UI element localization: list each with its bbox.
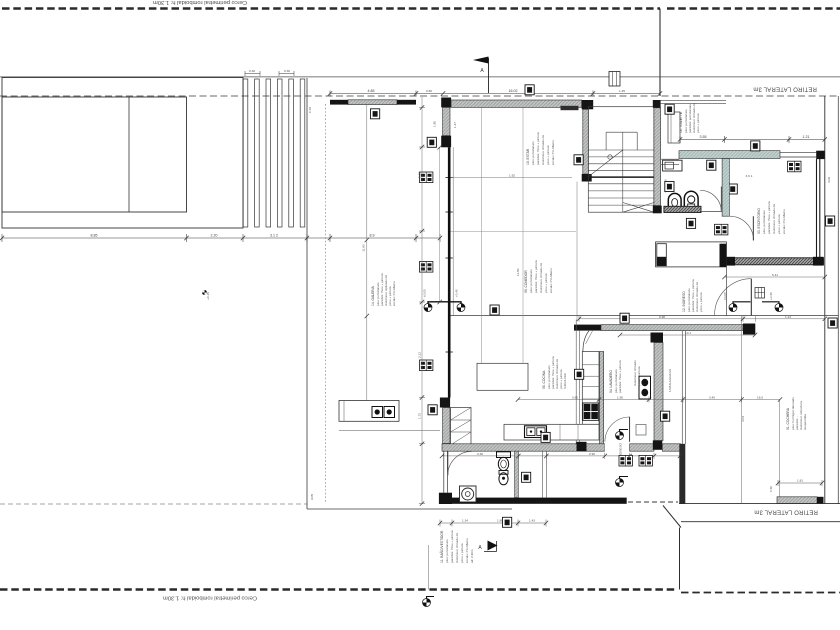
stair shaft outline <box>588 107 654 213</box>
bath door <box>447 451 449 475</box>
galeria top wall left black segment <box>330 100 348 105</box>
escritorio door arc <box>730 216 754 240</box>
galeria top wall hatched beam <box>348 100 397 105</box>
dimension over galeria wall <box>330 93 416 95</box>
svg-text:8.85: 8.85 <box>91 234 98 238</box>
escritorio room text <box>757 201 786 234</box>
fence level marker <box>428 545 430 590</box>
svg-text:10. ESTAR: 10. ESTAR <box>526 148 530 165</box>
svg-text:zocalo: Pro Marco: zocalo: Pro Marco <box>782 209 786 234</box>
svg-text:paredes: Yeso + pintura: paredes: Yeso + pintura <box>534 260 538 293</box>
swimming pool rectangle <box>2 97 187 212</box>
svg-text:0.76: 0.76 <box>308 107 312 113</box>
north wall end column <box>816 151 824 159</box>
pasillo door opening <box>605 443 630 452</box>
sidewalk line y76 <box>0 76 840 78</box>
estar ceiling break line <box>451 230 577 232</box>
svg-text:+0.40: +0.40 <box>455 289 459 297</box>
south dark wall <box>440 498 627 504</box>
lot boundary vertical at x660 <box>659 9 661 97</box>
svg-text:0.30: 0.30 <box>769 486 773 492</box>
kitchen E boxes <box>575 369 584 379</box>
E box right edge <box>828 318 837 328</box>
hall south line <box>701 210 725 212</box>
svg-text:1.72: 1.72 <box>418 413 422 419</box>
svg-text:cielorraso: Armado de: cielorraso: Armado de <box>541 135 545 165</box>
svg-text:zocalo: Pro Marco: zocalo: Pro Marco <box>392 281 396 306</box>
step line below island <box>339 430 440 432</box>
stove burners <box>583 403 599 421</box>
svg-text:1.21: 1.21 <box>785 315 791 319</box>
closet double line <box>542 451 544 497</box>
dimension tick marks <box>0 91 827 525</box>
svg-text:±0.00: ±0.00 <box>423 289 427 297</box>
toilette vanity <box>663 160 682 171</box>
escritorio east window <box>816 159 818 258</box>
svg-text:cielorraso: Armado: cielorraso: Armado <box>633 360 637 386</box>
svg-text:+0.30: +0.30 <box>769 292 773 300</box>
svg-text:1.21: 1.21 <box>803 135 810 139</box>
dim line across kitchen/cochera <box>518 397 780 403</box>
dim line under porch wall <box>620 334 755 336</box>
bath bidet <box>499 471 508 475</box>
svg-text:2.12: 2.12 <box>418 352 422 358</box>
svg-text:1.43: 1.43 <box>529 519 535 523</box>
svg-text:zocalo: Pro Marco: zocalo: Pro Marco <box>549 268 553 293</box>
cochera entry box <box>656 242 727 267</box>
dimension line under pool <box>2 234 440 242</box>
bbq grill dark squares <box>372 407 383 418</box>
escritorio south wall dark hatched <box>725 258 824 265</box>
top fence right segment <box>667 7 840 9</box>
E box above north wall <box>525 85 534 95</box>
cochera entry post <box>657 244 667 266</box>
north wall right column <box>582 100 594 109</box>
glazed west wall thick line lower <box>446 351 453 353</box>
svg-text:1.47: 1.47 <box>453 122 457 128</box>
svg-text:0.90: 0.90 <box>589 452 595 456</box>
svg-text:yeso + pintura: yeso + pintura <box>696 113 700 133</box>
edge line below stair wall <box>576 182 578 320</box>
svg-text:RETIRO LATERAL 3m: RETIRO LATERAL 3m <box>754 509 818 515</box>
dimension line top of house <box>443 93 593 95</box>
svg-text:03. ESCRITORIO: 03. ESCRITORIO <box>757 208 761 234</box>
svg-text:paredes: Yeso + pintura: paredes: Yeso + pintura <box>618 360 622 393</box>
svg-text:16. TOILETTE: 16. TOILETTE <box>679 111 683 133</box>
comedor divider double line <box>575 320 577 444</box>
toilette door arc <box>700 190 721 211</box>
svg-text:05. COCINA: 05. COCINA <box>542 370 546 389</box>
svg-text:3.60: 3.60 <box>572 396 578 400</box>
svg-text:yeso + pintura: yeso + pintura <box>637 366 641 386</box>
stair center line <box>622 132 624 212</box>
dim line below south wall <box>442 453 680 459</box>
toilette west wall top column <box>653 100 661 108</box>
gate box on sidewalk line <box>609 72 620 87</box>
ingreso text <box>682 279 703 312</box>
svg-text:alt: 2.60m: alt: 2.60m <box>470 549 474 563</box>
svg-text:01. COCHERA: 01. COCHERA <box>786 407 790 430</box>
bath sw column <box>439 493 452 504</box>
glazing inner line <box>452 147 454 315</box>
window on north wall <box>780 151 816 153</box>
front setback dashed line y96 <box>0 95 840 97</box>
hall shelf double line <box>661 158 679 160</box>
small side table <box>636 425 646 436</box>
glazed west wall thick line upper <box>448 147 451 397</box>
svg-text:1.92: 1.92 <box>509 174 515 178</box>
cochera room text <box>786 397 807 430</box>
lavadero texts <box>609 360 641 393</box>
right drawing edge line <box>837 96 839 504</box>
pasillo door leaf and arc <box>629 417 631 442</box>
svg-text:4.85: 4.85 <box>368 89 375 93</box>
svg-text:1.25: 1.25 <box>619 89 625 93</box>
svg-text:4.09: 4.09 <box>827 177 831 183</box>
svg-text:09. COMEDOR: 09. COMEDOR <box>524 270 528 293</box>
door level flags <box>616 432 624 440</box>
svg-text:piso: porcelanato: piso: porcelanato <box>529 269 533 293</box>
stair landing void <box>606 131 637 133</box>
bottom retiro line right <box>679 503 840 505</box>
level flags at west window <box>424 304 432 312</box>
west wall column 2 <box>441 136 451 148</box>
bottom fence dashed left <box>0 588 677 590</box>
svg-text:1.34: 1.34 <box>462 519 468 523</box>
rear gate dim <box>778 482 822 484</box>
toilette bidet <box>668 193 681 208</box>
svg-text:0.60: 0.60 <box>426 89 432 93</box>
comedor room text <box>524 260 553 293</box>
E box under galeria wall <box>371 109 380 119</box>
svg-text:Cerco perimetral romboidal h:: Cerco perimetral romboidal h: 1.30m <box>153 0 247 5</box>
svg-text:11.50: 11.50 <box>516 268 520 276</box>
svg-text:0.30: 0.30 <box>284 69 290 73</box>
house east wall dark <box>679 444 685 504</box>
south wall dashed continuation <box>628 501 678 503</box>
galeria service double box 1 <box>420 172 433 183</box>
rear dashed projection line y504 <box>0 503 308 505</box>
svg-text:12. INGRESO: 12. INGRESO <box>682 291 686 312</box>
house west corner column <box>441 98 451 108</box>
svg-text:paredes: Yeso + pintura: paredes: Yeso + pintura <box>536 132 540 165</box>
svg-text:16.02: 16.02 <box>509 89 518 93</box>
wood deck slats <box>243 79 305 227</box>
kitchen counter strip <box>582 352 599 425</box>
lavadero washer tower <box>639 376 651 399</box>
left dim extension vertical <box>421 97 423 503</box>
dim extension vertical cochera <box>741 316 743 504</box>
pool deck rectangle <box>2 78 243 229</box>
baulera east wall double <box>681 331 683 444</box>
svg-text:yeso + pintura: yeso + pintura <box>777 214 781 234</box>
escritorio west wall teal <box>722 159 729 217</box>
toilette room text <box>679 103 700 133</box>
svg-text:1.90: 1.90 <box>617 396 623 400</box>
boundary vertical to fence <box>679 528 681 590</box>
boundary jog diagonal <box>663 506 681 528</box>
niche bar below wall <box>561 106 579 110</box>
svg-text:3.30: 3.30 <box>477 452 483 456</box>
lavadero wall top column <box>651 333 664 343</box>
bath wc <box>497 452 511 458</box>
svg-text:3.60x4.00m: 3.60x4.00m <box>563 372 567 389</box>
svg-text:cielorraso: Armado de: cielorraso: Armado de <box>539 263 543 293</box>
porch south wall end column <box>743 324 755 335</box>
washing machine <box>460 486 477 502</box>
svg-text:3.45: 3.45 <box>709 396 715 400</box>
galeria single box low <box>428 405 437 415</box>
front facade line y315.5 <box>451 315 839 317</box>
E box at stair south <box>574 155 583 165</box>
svg-text:paredes: Yeso + pintura: paredes: Yeso + pintura <box>767 201 771 234</box>
slat dimension marks <box>245 71 294 76</box>
svg-text:5.41: 5.41 <box>772 273 778 277</box>
svg-text:04. LAVADERO: 04. LAVADERO <box>609 370 613 393</box>
section mark A top <box>488 58 490 93</box>
svg-text:Cerco perimetral romboidal h:: Cerco perimetral romboidal h: 1.30m <box>163 595 257 601</box>
svg-text:3.6 1: 3.6 1 <box>746 174 753 178</box>
north wall hatched (estar) <box>451 100 582 107</box>
toilette west wall hatched <box>654 108 661 206</box>
dim under ingreso wall <box>725 276 825 278</box>
estar void lines <box>481 108 483 364</box>
dining table <box>477 363 528 390</box>
south wall segment right <box>630 444 654 451</box>
main south wall hatched <box>442 444 605 451</box>
estar room text <box>526 132 555 165</box>
svg-text:yeso + pintura: yeso + pintura <box>460 543 464 563</box>
entry door arc <box>715 279 752 316</box>
bath room text <box>439 530 474 563</box>
galeria service double box 3 <box>420 360 433 371</box>
porch south wall hatched <box>601 325 743 331</box>
pool divider <box>128 97 130 212</box>
rear gate wall <box>777 497 817 504</box>
bottom fence dashed right <box>681 592 840 594</box>
porch south wall black start <box>574 325 601 331</box>
galeria service double box 2 <box>420 262 433 273</box>
ingreso west edge <box>725 267 727 316</box>
terrace west edge vertical <box>306 78 308 509</box>
lower boundary line right <box>681 521 840 523</box>
E box below south wall <box>503 517 512 527</box>
kitchen east wall hatched <box>600 352 604 444</box>
west wall column 3 <box>440 398 450 408</box>
facade dim line <box>579 318 825 320</box>
svg-text:cielorraso: Armado de: cielorraso: Armado de <box>455 533 459 563</box>
stair west wall bottom column <box>582 174 592 182</box>
stair treads <box>588 150 654 205</box>
stair up diagonal <box>588 150 623 177</box>
svg-text:1.81: 1.81 <box>797 479 803 483</box>
svg-text:A: A <box>478 545 482 551</box>
galeria room text <box>371 273 396 306</box>
stair west wall hatched <box>583 109 589 174</box>
svg-text:A: A <box>480 68 484 74</box>
right lot boundary <box>824 96 826 504</box>
closet E box <box>522 472 531 482</box>
bbq island line <box>343 401 345 422</box>
kitchen sink <box>525 426 547 438</box>
svg-text:9.05: 9.05 <box>310 494 314 500</box>
toilette west wall bottom column <box>653 206 662 214</box>
svg-text:0.30: 0.30 <box>249 69 255 73</box>
E box on facade line <box>620 313 629 323</box>
stair break cross <box>623 203 654 213</box>
kitchen counter curve <box>583 331 589 352</box>
entry door leaf <box>750 279 752 316</box>
bath west window <box>443 451 445 492</box>
svg-text:piso: porcelanato: piso: porcelanato <box>762 210 766 234</box>
kitchen bottom counter <box>504 424 599 440</box>
svg-text:14. GALERIA: 14. GALERIA <box>371 285 375 306</box>
svg-text:9.98: 9.98 <box>659 315 665 319</box>
svg-text:zocalo: Pro Marco: zocalo: Pro Marco <box>465 538 469 563</box>
svg-text:cielorraso: Armado de: cielorraso: Armado de <box>772 204 776 234</box>
svg-text:8.9: 8.9 <box>370 234 375 238</box>
svg-text:11.60: 11.60 <box>362 244 366 252</box>
bath east wall hatched <box>515 451 519 497</box>
toilette south wall hatched dark <box>664 206 701 212</box>
toilette north wall thin <box>661 99 726 101</box>
galeria roof projection dotted <box>324 104 326 502</box>
stair landing beam <box>588 176 654 178</box>
dim line entry top <box>680 136 825 143</box>
svg-text:piso: porcelanato: piso: porcelanato <box>531 141 535 165</box>
svg-text:zocalo: Pro Marco: zocalo: Pro Marco <box>551 140 555 165</box>
west wall hatched <box>443 107 450 135</box>
section mark A bottom <box>484 551 497 553</box>
svg-text:16.5: 16.5 <box>757 396 763 400</box>
svg-text:4.04: 4.04 <box>741 416 745 422</box>
galeria top wall right black segment <box>397 100 416 105</box>
svg-text:5.93: 5.93 <box>418 172 422 178</box>
E boxes bottom corridor <box>661 411 670 421</box>
toilette wc <box>684 191 698 208</box>
top perimeter fence dashed line <box>2 7 660 9</box>
bbq island rectangle <box>339 401 399 422</box>
toilette door leaf <box>720 187 722 212</box>
svg-text:2.20: 2.20 <box>211 234 218 238</box>
hogar hatched box <box>451 408 472 446</box>
entry north wall teal hatched <box>679 151 780 159</box>
svg-text:piso: porcelanato: piso: porcelanato <box>445 539 449 563</box>
galeria extension line <box>366 105 368 422</box>
svg-text:3.55: 3.55 <box>700 135 707 139</box>
cocina room text <box>542 356 567 389</box>
svg-text:suspendida: suspendida <box>803 414 807 430</box>
svg-text:yeso + pintura: yeso + pintura <box>699 292 703 312</box>
svg-text:13.BAULERA Rx: 13.BAULERA Rx <box>668 368 672 392</box>
entry drain grid <box>755 288 765 299</box>
svg-text:paredes: Yeso + pintura: paredes: Yeso + pintura <box>450 530 454 563</box>
svg-text:yeso + pintura: yeso + pintura <box>544 273 548 293</box>
boxed labels upper right <box>665 104 674 114</box>
lavadero east wall hatched <box>654 343 663 441</box>
entry level flags <box>729 304 737 312</box>
svg-text:1.80: 1.80 <box>433 121 437 127</box>
galeria single box <box>427 137 436 147</box>
dim line under bath <box>440 520 546 527</box>
toilette cabinet <box>668 112 680 143</box>
svg-text:3.1 2: 3.1 2 <box>270 234 278 238</box>
terrace south edge line <box>307 508 512 510</box>
west wall hatched lower <box>443 408 450 444</box>
svg-text:11. BAÑO/VESTIDOR: 11. BAÑO/VESTIDOR <box>439 530 444 563</box>
cochera entry right column <box>720 244 727 267</box>
svg-text:yeso + pintura: yeso + pintura <box>546 145 550 165</box>
svg-text:RETIRO LATERAL 3m: RETIRO LATERAL 3m <box>753 86 817 92</box>
